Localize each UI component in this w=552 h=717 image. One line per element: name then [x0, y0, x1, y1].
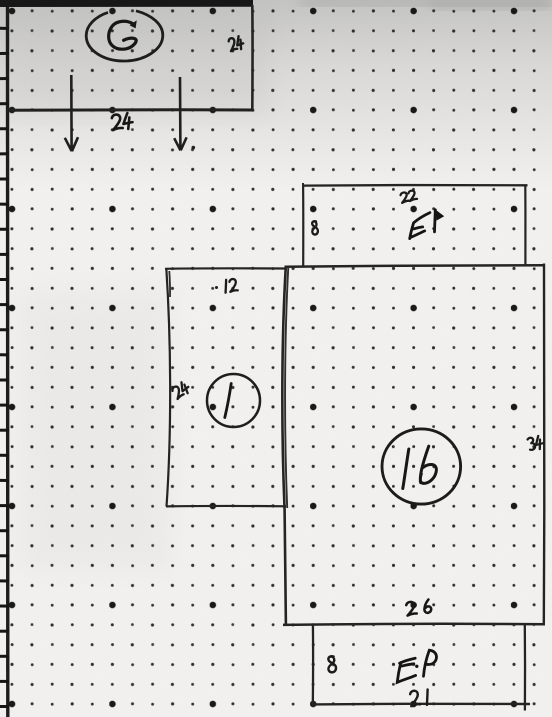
label 24 (left wall of room 1) [171, 381, 191, 400]
label 34 (right wall) [527, 435, 543, 450]
room 18: bottom wall [283, 624, 545, 625]
dot after arrow 2 [192, 146, 196, 150]
numeral 8 of 18 [420, 446, 436, 483]
arrow 1 (down) [65, 75, 78, 151]
label .12 [215, 286, 218, 289]
label EP (top) : P with flag [433, 210, 437, 232]
room 18: left wall (thick, drawn twice) [282, 267, 286, 625]
circle 1 bubble [207, 374, 260, 427]
room G: top bar (scan edge / box top) [0, 0, 253, 7]
room EP top: top wall [303, 184, 528, 187]
dot between E and P [415, 665, 418, 668]
room G: right wall [251, 5, 254, 110]
arrow 2 (down) [174, 77, 186, 150]
room 1: left wall [166, 268, 170, 507]
room G: bottom wall [7, 108, 254, 112]
room EP bottom: right wall (overshoot below) [524, 624, 527, 711]
room 1: left wall double stroke at top [168, 271, 171, 297]
room EP top: right wall [524, 185, 526, 266]
ruler ticks [0, 3, 9, 706]
room EP bottom: left wall [312, 624, 315, 705]
numeral 1 [225, 384, 231, 418]
label EP (bottom) : P [424, 650, 437, 676]
circle G bubble [86, 11, 163, 61]
label 26 (above bottom wall) [406, 599, 432, 616]
scan shading top gradient [0, 0, 552, 190]
label 21 (on bottom wall) [410, 689, 430, 706]
room 18: right wall [543, 264, 546, 626]
label 8 (top EP) [311, 221, 318, 235]
label EP (bottom) : E [397, 658, 415, 682]
label 24 (right of G, on wall) [228, 36, 245, 52]
label EP (top) : E [410, 213, 430, 239]
label 24 (below G bottom wall) [111, 113, 133, 131]
room 1: bottom wall [166, 505, 286, 508]
room 18: top wall [285, 265, 545, 267]
letter G [109, 21, 137, 49]
corner tick top-left of EP [302, 183, 304, 188]
room 1: top wall [165, 267, 286, 270]
label 8 (bottom EP) [327, 656, 336, 673]
numeral 1 of 18 [403, 449, 409, 489]
label 22 [400, 190, 417, 203]
ruler line (left scan edge) [6, 0, 10, 717]
extra gray wash in G-box area [0, 0, 270, 115]
room EP top: left wall [302, 185, 304, 266]
circle 18 bubble [382, 429, 461, 504]
room EP bottom: bottom wall [312, 703, 530, 706]
top-right scan smudge [300, 0, 552, 6]
